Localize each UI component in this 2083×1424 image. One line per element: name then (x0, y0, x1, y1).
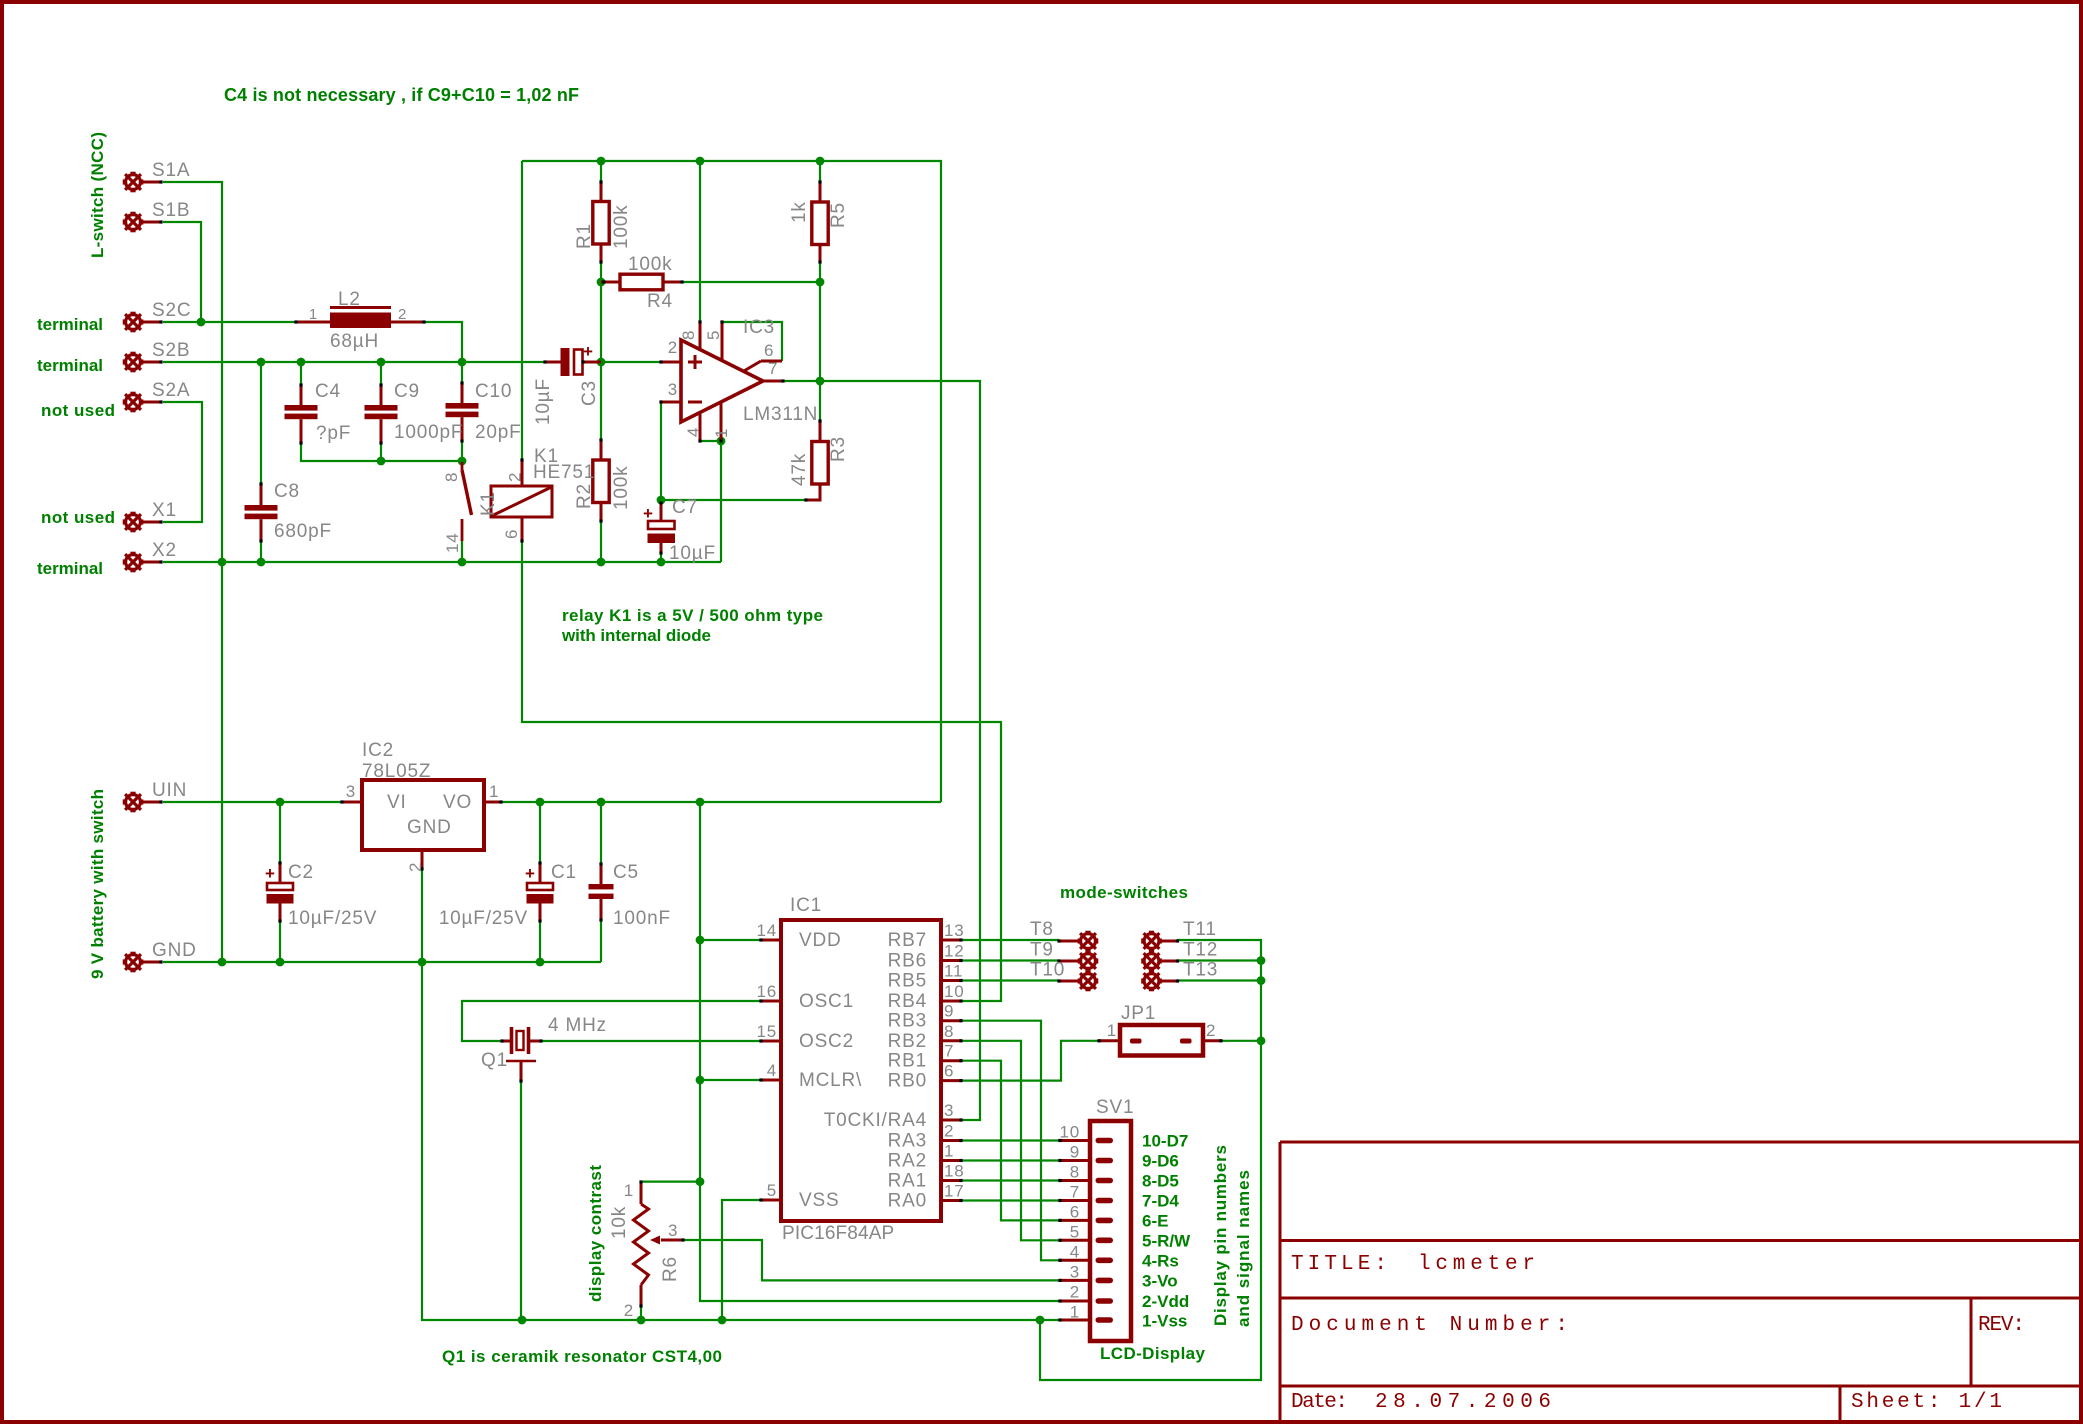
node Vss/JP1 return junction (1036, 1316, 1045, 1325)
wire X2 rail up to op-amp pins 1/4 (700, 441, 721, 562)
svg-text:RB7: RB7 (888, 930, 927, 951)
node C2 top (276, 798, 285, 807)
svg-text:C3: C3 (579, 380, 600, 406)
wire C10 upper lead (461, 362, 463, 383)
svg-text:17: 17 (944, 1182, 965, 1201)
wire UIN row to IC2 VI (163, 801, 342, 803)
svg-text:18: 18 (944, 1162, 965, 1181)
resistor R4 (620, 274, 663, 290)
node R6 pin 2 junction (637, 1316, 646, 1325)
wire S1B to S2C row (163, 222, 201, 322)
resistor R5 (812, 202, 828, 245)
terminal pad T12 (1142, 952, 1160, 970)
resistor R3 (812, 442, 828, 485)
node R4/R5/output junction (816, 278, 825, 287)
svg-text:2: 2 (406, 862, 425, 872)
svg-text:lcmeter: lcmeter (1418, 1253, 1535, 1276)
node C1 top (536, 798, 545, 807)
wire C9 upper lead (380, 362, 382, 385)
svg-text:2: 2 (398, 306, 407, 323)
svg-text:680pF: 680pF (274, 521, 332, 542)
svg-text:14: 14 (756, 921, 777, 940)
node S1B/S2C junction (197, 318, 206, 327)
wire +5V to IC1 MCLR (700, 1079, 761, 1081)
resistor R1 (593, 202, 609, 245)
node C9 top (377, 358, 386, 367)
svg-text:GND: GND (152, 940, 197, 961)
wire L2 pin 2 down to S2B row (424, 322, 462, 362)
svg-text:7: 7 (768, 359, 778, 378)
wire IC1 VSS to ground rail (722, 1200, 761, 1320)
wire JP1 pin 2 to ground return (1221, 1040, 1261, 1042)
svg-text:7: 7 (944, 1042, 954, 1061)
wire R4/R5 node to output (819, 282, 821, 381)
svg-text:100nF: 100nF (613, 908, 671, 929)
svg-text:mode-switches: mode-switches (1060, 883, 1188, 902)
node C8 bottom (257, 558, 266, 567)
wire R5 upper lead (819, 161, 821, 182)
svg-text:10-D7: 10-D7 (1142, 1132, 1188, 1151)
wire RB6 to T9 (961, 959, 1059, 961)
wire RA3 to LCD D7 (961, 1139, 1060, 1141)
svg-text:8: 8 (679, 330, 698, 340)
svg-text:9-D6: 9-D6 (1142, 1152, 1179, 1171)
svg-text:C4: C4 (315, 381, 341, 402)
wire C8 lower lead (260, 541, 262, 562)
node C1 bottom (536, 958, 545, 967)
capacitor C10 (446, 403, 479, 409)
wire +5V top rail (522, 161, 941, 802)
terminal pad S2A (124, 393, 142, 411)
svg-text:RA2: RA2 (888, 1151, 927, 1172)
svg-text:2: 2 (668, 338, 678, 357)
op-amp IC3 pin 6 stub (761, 360, 782, 363)
svg-text:Q1: Q1 (481, 1050, 508, 1071)
svg-text:RB4: RB4 (888, 991, 927, 1012)
wire C5 upper lead (600, 802, 602, 864)
wire R2 lower lead (600, 521, 602, 562)
op-amp IC3 pin 1 stub (720, 402, 723, 441)
svg-text:T11: T11 (1183, 919, 1217, 940)
node C7 bottom (657, 558, 666, 567)
svg-text:3: 3 (668, 1221, 678, 1240)
wire C7 lower lead (660, 553, 662, 562)
svg-text:T9: T9 (1030, 940, 1054, 961)
wire RB7 to T8 (961, 939, 1059, 941)
node IC1 VDD junction (696, 936, 705, 945)
node +5V branch to IC1 (696, 798, 705, 807)
svg-text:C9: C9 (394, 381, 420, 402)
svg-text:MCLR\: MCLR\ (799, 1070, 862, 1091)
wire C5 lower lead (600, 920, 602, 962)
svg-text:+: + (525, 864, 535, 883)
wire C2 upper lead (279, 802, 281, 863)
svg-text:IC3: IC3 (743, 317, 775, 338)
svg-text:5-R/W: 5-R/W (1142, 1232, 1191, 1251)
svg-text:1: 1 (1107, 1021, 1117, 1040)
svg-text:C4 is not necessary , if C9+C: C4 is not necessary , if C9+C10 = 1,02 n… (224, 85, 579, 105)
svg-text:T10: T10 (1030, 960, 1065, 981)
svg-text:RA3: RA3 (888, 1131, 927, 1152)
svg-text:T0CKI/RA4: T0CKI/RA4 (824, 1110, 927, 1131)
svg-text:S2A: S2A (152, 380, 190, 401)
resonator Q1 4MHz (506, 1027, 536, 1061)
node Q1 ground junction (518, 1316, 527, 1325)
svg-text:4-Rs: 4-Rs (1142, 1252, 1179, 1271)
resistor R2 (593, 460, 609, 503)
wire C8 upper lead (260, 362, 262, 484)
capacitor C9 (365, 405, 398, 411)
svg-text:?pF: ?pF (316, 423, 351, 444)
svg-text:9: 9 (944, 1002, 954, 1021)
svg-text:2: 2 (1206, 1021, 1216, 1040)
svg-text:GND: GND (407, 817, 452, 838)
svg-text:9 V battery with switch: 9 V battery with switch (88, 789, 107, 979)
terminal pad T13 (1142, 972, 1160, 990)
wire GND to LCD Vss rail (422, 869, 1060, 1320)
node C4 top (297, 358, 306, 367)
svg-text:S1B: S1B (152, 200, 190, 221)
svg-text:RB5: RB5 (888, 971, 927, 992)
title block outline (1280, 1142, 2081, 1422)
wire R6 pin 1 to +5V (641, 1180, 700, 1182)
svg-text:R2: R2 (574, 483, 595, 509)
svg-text:REV:: REV: (1978, 1314, 2025, 1337)
svg-text:PIC16F84AP: PIC16F84AP (782, 1223, 895, 1244)
svg-text:IC2: IC2 (362, 740, 394, 761)
wire-to-pin junction ticks (599, 180, 602, 183)
wire T11 and switch-ground return (1040, 940, 1261, 1380)
svg-text:X1: X1 (152, 500, 177, 521)
svg-text:2-Vdd: 2-Vdd (1142, 1292, 1189, 1311)
svg-text:C10: C10 (475, 381, 512, 402)
svg-text:relay K1 is a 5V / 500 ohm typ: relay K1 is a 5V / 500 ohm type (562, 606, 823, 625)
svg-text:3: 3 (944, 1101, 954, 1120)
terminal pad T11 (1142, 932, 1160, 950)
wire S1A to X2 rail (163, 182, 222, 562)
svg-text:4: 4 (684, 427, 703, 437)
wire switch bottom to rail (461, 541, 463, 562)
svg-text:not used: not used (41, 508, 115, 527)
svg-text:3: 3 (1070, 1263, 1080, 1282)
node T12 junction (1257, 956, 1266, 965)
svg-text:78L05Z: 78L05Z (362, 761, 431, 782)
svg-text:10: 10 (944, 982, 965, 1001)
wire R1 upper lead (600, 161, 602, 182)
svg-text:terminal: terminal (37, 356, 103, 375)
svg-text:3: 3 (346, 782, 356, 801)
svg-text:LCD-Display: LCD-Display (1100, 1344, 1206, 1363)
svg-text:47k: 47k (789, 453, 810, 486)
op-amp IC3 pin 7 stub (763, 380, 783, 383)
svg-text:1: 1 (624, 1181, 634, 1200)
op-amp IC3 pin 8 stub (699, 322, 702, 351)
terminal pad S1B (124, 213, 142, 231)
wire op-amp pin 8 to +5V rail (699, 161, 701, 322)
node S1A vertical on X2 rail (218, 558, 227, 567)
svg-text:1: 1 (944, 1142, 954, 1161)
wire R4 to R5 bottom (682, 281, 820, 283)
node R1 top (597, 157, 606, 166)
inductor L2 (330, 306, 391, 309)
capacitor C8 (245, 505, 278, 511)
svg-text:RB6: RB6 (888, 951, 927, 972)
svg-text:SV1: SV1 (1096, 1097, 1134, 1118)
capacitor C2 (267, 883, 293, 890)
svg-text:10µF: 10µF (533, 378, 554, 425)
capacitor C5 (589, 884, 614, 889)
wire Q1 ground lead (520, 1081, 522, 1320)
terminal pad X2 (124, 553, 142, 571)
svg-text:1: 1 (712, 428, 731, 438)
wire OSC1 to Q1 (462, 1001, 761, 1041)
microcontroller IC1 PIC16F84AP (781, 920, 941, 1221)
wire +5V branch to IC1 and LCD Vdd (700, 802, 1060, 1301)
svg-text:2: 2 (506, 472, 525, 482)
wire relay coil pin 6 to RB4 (522, 541, 1001, 1001)
wire R5 lower lead (819, 262, 821, 282)
wire C4 bottom to switch node (301, 443, 462, 461)
node IC1 VSS junction (718, 1316, 727, 1325)
wire Q1 to OSC2 (541, 1040, 761, 1042)
wire R2 upper lead (600, 362, 602, 440)
svg-text:RA1: RA1 (888, 1171, 927, 1192)
svg-text:C1: C1 (551, 862, 577, 883)
svg-text:HE751: HE751 (533, 462, 595, 483)
wire RB0 to JP1 pin 1 (961, 1041, 1099, 1081)
svg-text:6: 6 (502, 529, 521, 539)
svg-text:R5: R5 (828, 202, 849, 228)
op-amp IC3 pin 2 stub (661, 361, 681, 364)
svg-text:5: 5 (767, 1181, 777, 1200)
svg-text:K1: K1 (478, 491, 499, 516)
svg-text:display contrast: display contrast (586, 1165, 605, 1302)
svg-text:100k: 100k (628, 254, 672, 275)
terminal pad S2C (124, 313, 142, 331)
svg-text:6: 6 (944, 1062, 954, 1081)
wire R3 upper lead (819, 381, 821, 421)
wire +5V to IC1 VDD (700, 939, 761, 941)
svg-text:Q1 is ceramik resonator CST4,0: Q1 is ceramik resonator CST4,00 (442, 1347, 722, 1366)
terminal pad S1A (124, 173, 142, 191)
svg-text:3-Vo: 3-Vo (1142, 1272, 1178, 1291)
svg-text:JP1: JP1 (1121, 1003, 1156, 1024)
svg-text:L-switch (NCC): L-switch (NCC) (88, 132, 107, 258)
wire C9 lower lead (380, 443, 382, 461)
node switch K1 top (458, 457, 467, 466)
svg-text:8: 8 (1070, 1163, 1080, 1182)
node R1/R4 junction (597, 278, 606, 287)
svg-text:UIN: UIN (152, 780, 187, 801)
wire C1 lower lead (539, 921, 541, 962)
capacitor C3 (561, 348, 570, 376)
svg-text:20pF: 20pF (475, 422, 522, 443)
svg-text:RB2: RB2 (888, 1031, 927, 1052)
svg-text:5: 5 (1070, 1223, 1080, 1242)
node C2 bottom (276, 958, 285, 967)
wire RA1 to LCD D5 (961, 1179, 1060, 1181)
svg-text:terminal: terminal (37, 315, 103, 334)
svg-text:R3: R3 (828, 436, 849, 462)
node C3 right / op-amp +input (597, 358, 606, 367)
svg-text:9: 9 (1070, 1143, 1080, 1162)
svg-text:6: 6 (1070, 1203, 1080, 1222)
node T13 junction (1257, 976, 1266, 985)
wire IC2 VO +5V row (501, 801, 941, 803)
svg-text:4: 4 (1070, 1243, 1080, 1262)
svg-text:S2B: S2B (152, 340, 190, 361)
op-amp IC3 pin 3 stub (661, 401, 681, 404)
svg-text:6-E: 6-E (1142, 1212, 1168, 1231)
svg-text:13: 13 (944, 921, 965, 940)
svg-text:VDD: VDD (799, 930, 842, 951)
node op-amp pin1/pin4 junction (717, 437, 726, 446)
svg-text:8-D5: 8-D5 (1142, 1172, 1179, 1191)
svg-text:Display pin numbers: Display pin numbers (1211, 1145, 1230, 1326)
svg-text:C8: C8 (274, 481, 300, 502)
svg-text:OSC1: OSC1 (799, 991, 854, 1012)
wire RA2 to LCD D6 (961, 1159, 1060, 1161)
capacitor C1 (527, 883, 553, 890)
svg-text:+: + (583, 342, 593, 361)
node JP1 pin 2 junction (1257, 1036, 1266, 1045)
svg-text:R1: R1 (574, 223, 595, 249)
svg-text:3: 3 (668, 380, 678, 399)
terminal pad T8 (1079, 932, 1097, 950)
svg-text:C2: C2 (288, 862, 314, 883)
svg-text:12: 12 (944, 942, 965, 961)
svg-text:14: 14 (443, 532, 462, 553)
wire op-amp output to RA4/T0CKI (783, 381, 980, 1120)
svg-text:2: 2 (1070, 1283, 1080, 1302)
node op-amp output junction (816, 377, 825, 386)
svg-text:VSS: VSS (799, 1190, 839, 1211)
op-amp IC3 minus symbol (688, 401, 702, 404)
terminal pad GND (124, 953, 142, 971)
svg-text:6: 6 (764, 341, 774, 360)
svg-text:+: + (265, 864, 275, 883)
svg-text:LM311N: LM311N (743, 404, 818, 425)
svg-text:10k: 10k (609, 1206, 630, 1239)
svg-text:VO: VO (443, 792, 472, 813)
svg-text:T8: T8 (1030, 919, 1054, 940)
svg-text:X2: X2 (152, 540, 177, 561)
wire R6 wiper to LCD Vo (683, 1240, 1060, 1280)
wire op-amp -input to R3/C7 (661, 402, 806, 500)
svg-text:2: 2 (624, 1301, 634, 1320)
svg-text:S2C: S2C (152, 300, 191, 321)
svg-text:1: 1 (309, 306, 318, 323)
svg-text:T13: T13 (1183, 960, 1218, 981)
svg-text:1: 1 (489, 782, 499, 801)
svg-text:with internal diode: with internal diode (561, 626, 711, 645)
svg-text:L2: L2 (338, 289, 361, 310)
wire T13 (1177, 979, 1261, 981)
relay K1 (491, 486, 552, 517)
op-amp IC3 LM311N (681, 340, 763, 422)
wire RB5 to T10 (961, 979, 1059, 981)
svg-text:68µH: 68µH (330, 331, 379, 352)
svg-text:R4: R4 (647, 291, 673, 312)
svg-text:7-D4: 7-D4 (1142, 1192, 1179, 1211)
op-amp IC3 pin 5 stub (721, 322, 724, 361)
node C9 bottom junction (377, 457, 386, 466)
svg-text:100k: 100k (611, 205, 632, 249)
wire RB3 to LCD Rs (961, 1021, 1060, 1261)
svg-text:5: 5 (704, 330, 723, 340)
wire R6 pin 2 to ground (640, 1306, 642, 1320)
wire S2B row to C3 (163, 361, 545, 363)
svg-text:4 MHz: 4 MHz (548, 1015, 607, 1036)
node C10 top / L2 (458, 358, 467, 367)
svg-text:C7: C7 (672, 497, 698, 518)
node switch K1 bottom (458, 558, 467, 567)
wire GND row (163, 961, 601, 963)
svg-text:11: 11 (944, 962, 963, 981)
node R2 bottom (597, 558, 606, 567)
wire S2C row to L2 pin 1 (163, 321, 296, 323)
svg-text:1k: 1k (789, 201, 810, 223)
wire switch top contact (461, 462, 463, 466)
svg-text:10µF: 10µF (669, 543, 716, 564)
svg-text:T12: T12 (1183, 940, 1218, 961)
wire X2 rail down to GND row (221, 562, 223, 962)
wire C3 to op-amp +input (601, 361, 661, 363)
relay switch K1 contact (461, 462, 464, 470)
svg-text:16: 16 (756, 982, 777, 1001)
node IC1 MCLR junction (696, 1076, 705, 1085)
node R5 top (816, 157, 825, 166)
terminal pad T10 (1079, 972, 1097, 990)
svg-text:IC1: IC1 (790, 895, 822, 916)
svg-text:S1A: S1A (152, 160, 190, 181)
op-amp IC3 plus symbol (688, 355, 702, 369)
svg-text:8: 8 (442, 472, 461, 482)
wire T12 (1177, 959, 1261, 961)
wire C4 upper lead (300, 362, 302, 385)
terminal pad X1 (124, 513, 142, 531)
wire op-amp pins 5-6 strap (722, 322, 782, 361)
node IC2 GND junction (418, 958, 427, 967)
svg-text:RB3: RB3 (888, 1011, 927, 1032)
svg-text:1000pF: 1000pF (394, 422, 463, 443)
node R6 pin 1 junction (696, 1177, 705, 1186)
potentiometer R6 (634, 1204, 649, 1285)
wire RB2 to LCD R/W (961, 1041, 1060, 1241)
svg-text:8: 8 (944, 1022, 954, 1041)
svg-text:100k: 100k (611, 466, 632, 510)
terminal pad UIN (124, 793, 142, 811)
svg-text:10µF/25V: 10µF/25V (439, 908, 528, 929)
svg-text:RA0: RA0 (888, 1191, 927, 1212)
svg-text:1-Vss: 1-Vss (1142, 1312, 1187, 1331)
wire C2 lower lead (279, 921, 281, 962)
svg-text:15: 15 (756, 1022, 777, 1041)
svg-text:R6: R6 (660, 1256, 681, 1282)
node -input/R3/C7 junction (657, 496, 666, 505)
node GND/X2-rail junction (218, 958, 227, 967)
wire S2A to X1 (163, 402, 202, 522)
wire RB1 to LCD E (961, 1061, 1060, 1221)
svg-text:and signal names: and signal names (1234, 1170, 1253, 1327)
terminal pad T9 (1079, 952, 1097, 970)
voltage regulator IC2 78L05Z (362, 780, 484, 850)
svg-text:+: + (643, 504, 653, 523)
svg-text:not used: not used (41, 401, 115, 420)
svg-text:4: 4 (767, 1061, 777, 1080)
wire +5V rail down to relay coil pin 2 (521, 161, 523, 460)
wire X2 ground rail (163, 561, 721, 563)
